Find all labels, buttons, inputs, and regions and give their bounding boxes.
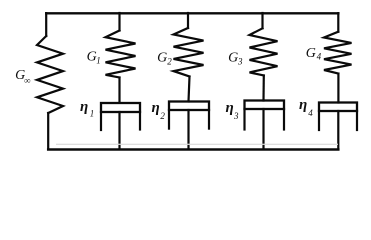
svg-text:2: 2 xyxy=(167,56,172,66)
spring G_inf xyxy=(37,36,63,113)
dashpot eta1 left wall xyxy=(100,112,102,130)
svg-text:1: 1 xyxy=(96,56,101,66)
wire spring G1 to dashpot eta1 xyxy=(118,78,120,103)
svg-text:η: η xyxy=(152,100,160,116)
wire left vertical (top of G-infinity branch) xyxy=(45,13,47,36)
dashpot eta1 right wall xyxy=(139,112,141,130)
dashpot eta4 right wall xyxy=(356,111,358,130)
svg-text:3: 3 xyxy=(237,56,243,66)
svg-text:G: G xyxy=(87,49,97,64)
scan artifact faint line xyxy=(56,144,338,145)
spring G1 xyxy=(106,31,136,78)
spring G4 xyxy=(324,32,352,74)
node junction branch3 top xyxy=(261,13,263,28)
svg-text:∞: ∞ xyxy=(24,76,30,86)
label eta3 xyxy=(226,100,240,121)
node junction branch1 top xyxy=(118,13,120,31)
label eta2 xyxy=(152,100,166,121)
svg-text:G: G xyxy=(157,50,167,65)
dashpot eta2 left wall xyxy=(168,110,170,129)
svg-text:G: G xyxy=(306,46,316,61)
dashpot eta3 left wall xyxy=(243,109,245,130)
svg-text:2: 2 xyxy=(160,111,165,121)
dashpot eta3 cylinder cap xyxy=(245,101,285,110)
wire spring G4 to dashpot eta4 xyxy=(337,74,339,103)
dashpot eta4 piston rod to bottom rail xyxy=(337,111,339,149)
dashpot eta4 cylinder cap xyxy=(319,103,357,112)
svg-text:η: η xyxy=(299,97,307,113)
label G4 xyxy=(306,46,322,62)
svg-text:G: G xyxy=(228,50,238,65)
label eta4 xyxy=(299,97,313,118)
wire bottom rail xyxy=(48,148,338,151)
label eta1 xyxy=(80,99,94,119)
svg-text:1: 1 xyxy=(90,109,95,119)
dashpot eta1 cylinder cap xyxy=(101,103,140,112)
svg-text:4: 4 xyxy=(317,52,322,62)
dashpot eta4 left wall xyxy=(318,111,320,130)
wire spring G3 to dashpot eta3 xyxy=(262,76,264,101)
label G_inf xyxy=(15,68,31,86)
svg-text:η: η xyxy=(80,99,88,115)
wire left vertical (bottom of G-infinity branch) xyxy=(47,113,49,149)
node junction branch2 top xyxy=(187,13,189,28)
dashpot eta1 piston rod to bottom rail xyxy=(118,112,120,149)
node junction branch4 top (right rail corner) xyxy=(337,13,339,32)
label G3 xyxy=(228,50,243,66)
dashpot eta3 piston rod to bottom rail xyxy=(262,109,264,149)
dashpot eta2 right wall xyxy=(208,110,210,129)
label G1 xyxy=(87,49,101,65)
svg-text:η: η xyxy=(226,100,234,116)
svg-text:3: 3 xyxy=(233,111,239,121)
dashpot eta3 right wall xyxy=(283,109,285,130)
dashpot eta2 cylinder cap xyxy=(169,102,209,111)
wire top rail xyxy=(46,12,338,14)
dashpot eta2 piston rod to bottom rail xyxy=(187,110,189,149)
svg-text:4: 4 xyxy=(308,108,313,118)
wire spring G2 to dashpot eta2 xyxy=(189,77,190,102)
spring G2 xyxy=(174,28,204,77)
label G2 xyxy=(157,50,172,66)
spring G3 xyxy=(250,28,278,75)
